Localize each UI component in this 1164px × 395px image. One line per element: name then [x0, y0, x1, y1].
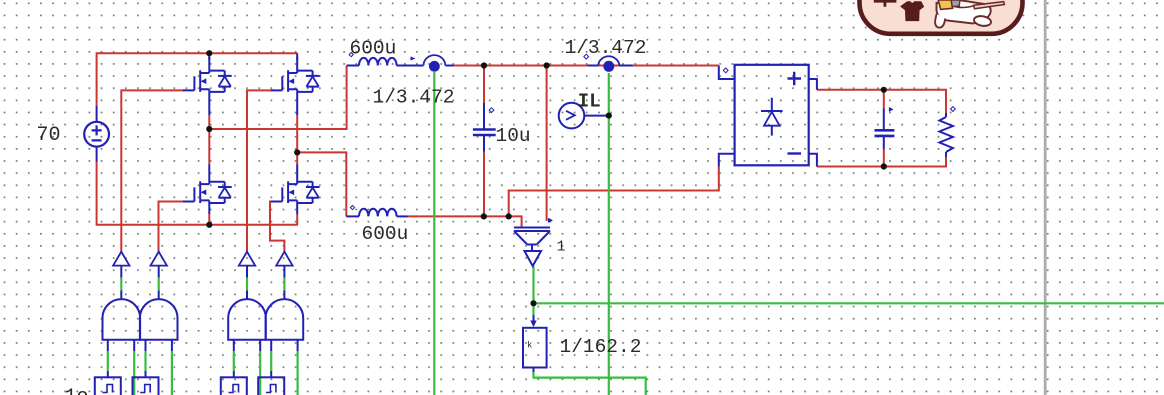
node output cap bottom: [881, 163, 887, 169]
marker arrow L1: [411, 57, 416, 61]
MOSFET Q3 bottom-left: [183, 164, 232, 203]
controller block B4: [258, 377, 284, 395]
resistor R1 load: [939, 117, 953, 152]
lead cap10u bottom: [483, 136, 485, 152]
inductor L2 600u bottom: [359, 209, 397, 217]
lead source top stub: [96, 106, 98, 122]
AND gate G4: [266, 299, 304, 340]
controller block B2: [133, 377, 159, 395]
GROUP: green control wires: [108, 72, 1164, 395]
node phase B: [294, 149, 300, 155]
lead resistor bottom: [945, 152, 947, 157]
node top rail / M1 drain: [206, 50, 212, 56]
wire buffer4 in: [283, 278, 285, 291]
wire and4 in2: [297, 351, 299, 395]
svg-text:k: k: [527, 341, 532, 351]
marker diamond L1: [349, 53, 353, 57]
wire cap out upper lead: [883, 90, 885, 109]
wire sensor2 signal down: [608, 73, 610, 395]
node sense tap top: [544, 62, 550, 68]
controller block B3: [221, 377, 247, 395]
arrow into k block: [530, 321, 536, 328]
svg-text:1: 1: [557, 238, 566, 255]
node cap10u top: [481, 62, 487, 68]
lead buffer4 out: [283, 266, 285, 300]
capacitor C1 10u: [473, 130, 496, 136]
wire bottom inductor to tap: [408, 216, 522, 227]
voltage source 70: [84, 122, 109, 147]
svg-text:10u: 10u: [496, 125, 531, 147]
lead block input stubs: [108, 371, 271, 377]
wire gate M1: [121, 90, 184, 251]
node bottom rail: [206, 222, 212, 228]
svg-text:600u: 600u: [350, 38, 397, 60]
marker diamond sensor2: [584, 54, 589, 59]
lead inductor2 left: [346, 215, 359, 217]
wire and2 in2: [171, 351, 173, 395]
lead inductor1 left: [347, 65, 359, 67]
wire bridge + output: [817, 90, 946, 113]
marker arrow C2: [889, 107, 894, 112]
lead bridge output bottom: [809, 154, 817, 167]
svg-text:1o: 1o: [65, 386, 89, 395]
wire tap to bridge lower input: [509, 167, 719, 217]
svg-text:1/3.472: 1/3.472: [565, 37, 647, 59]
lead bridge input bottom: [719, 154, 735, 167]
capacitor C2 output: [875, 130, 895, 136]
lead and gate input stubs: [108, 340, 298, 351]
wire cap 10u upper lead: [483, 66, 485, 104]
AND gate G1: [103, 299, 141, 340]
watermark logo top right: [860, 0, 1023, 34]
window divider line: [1044, 0, 1047, 395]
buffer U3: [239, 252, 255, 266]
wire gain out to k block: [532, 266, 534, 315]
current sensor 2 (flag with dot): [598, 56, 619, 72]
lead M2 source: [296, 92, 298, 115]
wire right leg upper: [296, 115, 298, 164]
lead cap10u top: [483, 103, 485, 129]
lead bridge input top: [719, 66, 735, 80]
node bridge branch: [506, 213, 512, 219]
AND gate G2: [140, 299, 178, 340]
k block 1/162.2: [523, 315, 547, 368]
inductor L1 600u top: [359, 58, 397, 66]
bridge rectifier BD1: [735, 65, 809, 166]
lead M4 source: [296, 203, 298, 214]
gain block 1 (triangle): [514, 228, 550, 267]
MOSFET Q2 top-right: [271, 57, 320, 92]
lead inductor1 right: [397, 65, 454, 67]
wire buffer3 in: [246, 278, 248, 291]
wire and3 in1: [233, 351, 235, 371]
lead M1 drain: [208, 53, 210, 60]
MOSFET Q1 top-left: [183, 57, 232, 92]
wire bottom rail V-: [97, 162, 298, 225]
svg-text:70: 70: [37, 124, 61, 147]
lead M2 drain: [296, 53, 298, 60]
MOSFET Q4 bottom-right: [271, 164, 320, 203]
wire gate M3: [159, 202, 185, 252]
wire buffer2 in: [158, 278, 160, 291]
controller block B1: [95, 377, 121, 395]
wire k block out: [534, 372, 646, 395]
wire cap out lower lead: [883, 149, 885, 167]
wire left leg upper (drain M1 node): [208, 115, 210, 164]
wire phase B to bottom inductor: [297, 152, 346, 216]
lead IL sensor to node: [584, 115, 609, 117]
wire right leg lower: [296, 214, 298, 225]
buffer U4: [276, 252, 292, 266]
svg-text:1/3.472: 1/3.472: [373, 86, 455, 108]
marker diamond C1: [489, 108, 494, 113]
lead cap out top: [883, 109, 885, 131]
svg-text:1/162.2: 1/162.2: [560, 336, 642, 358]
node output cap top: [881, 87, 887, 93]
wire cap 10u lower lead: [483, 152, 485, 217]
node cap10u bottom: [481, 213, 487, 219]
lead M1 source: [208, 92, 210, 115]
GROUP: blue short leads: [97, 53, 946, 377]
wire left leg lower: [208, 214, 210, 225]
node phase A: [206, 126, 212, 132]
marker diamond bridge input: [723, 68, 728, 73]
lead buffer3 out: [246, 266, 248, 300]
wire sensor1 signal down: [433, 72, 435, 395]
wire gate M2: [247, 90, 272, 251]
lead resistor top: [945, 113, 947, 117]
wire and1 in2: [133, 351, 135, 395]
wire gate M4: [270, 202, 284, 252]
wire bridge - output: [817, 157, 946, 167]
lead cap out bottom: [883, 137, 885, 149]
lead source bottom stub: [96, 147, 98, 162]
node IL sensor: [606, 113, 612, 119]
buffer U1: [113, 252, 129, 266]
wire top inductor to node bus: [454, 65, 719, 67]
lead bridge output top: [809, 79, 817, 90]
wire and2 in1: [144, 351, 146, 371]
svg-text:IL: IL: [578, 91, 601, 113]
lead inductor2 right: [397, 215, 408, 217]
wire and3 in2: [259, 351, 261, 395]
marker diamond L2: [350, 206, 354, 210]
wire and1 in1: [107, 351, 109, 371]
wire buffer1 in: [120, 278, 122, 291]
lead buffer2 out: [158, 266, 160, 300]
svg-text:600u: 600u: [362, 223, 409, 245]
lead M3 source: [208, 203, 210, 214]
current sensor IL: [559, 103, 585, 129]
wire and4 in1: [270, 351, 272, 371]
marker diamond R1: [951, 107, 956, 112]
marker arrow gain input: [548, 218, 553, 223]
GROUP: red power wires: [97, 53, 946, 252]
lead k block out: [533, 368, 535, 373]
lead sensor2 sides: [588, 65, 633, 67]
lead buffer1 out: [120, 266, 122, 300]
wire voltage sense drop: [546, 66, 548, 222]
wire feedback bus: [534, 302, 1164, 304]
wire phase A to top inductor: [209, 66, 346, 130]
node feedback: [530, 300, 536, 306]
AND gate G3: [228, 299, 266, 340]
current sensor 1 (flag with dot): [424, 55, 446, 72]
wire top rail V+: [97, 53, 298, 106]
buffer U2: [151, 252, 167, 266]
